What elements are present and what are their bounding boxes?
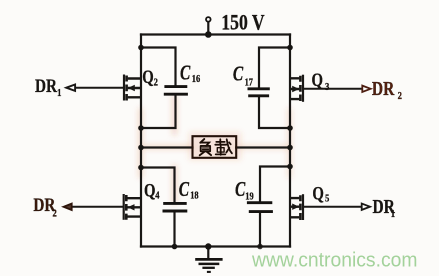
svg-text:1: 1: [57, 87, 61, 99]
svg-text:C: C: [180, 61, 191, 84]
svg-text:2: 2: [398, 90, 402, 102]
svg-text:Q: Q: [312, 183, 323, 204]
svg-text:C: C: [235, 178, 246, 201]
svg-text:C: C: [179, 178, 190, 201]
svg-text:Q: Q: [312, 69, 323, 90]
svg-text:3: 3: [325, 81, 329, 93]
svg-text:19: 19: [245, 190, 254, 202]
svg-text:DR: DR: [372, 77, 395, 99]
svg-text:www.cntronics.com: www.cntronics.com: [251, 249, 417, 272]
svg-text:5: 5: [325, 193, 329, 205]
svg-text:18: 18: [190, 189, 199, 201]
svg-text:2: 2: [154, 77, 158, 89]
svg-text:Q: Q: [142, 66, 153, 87]
svg-text:Q: Q: [144, 180, 155, 201]
svg-text:150 V: 150 V: [221, 11, 265, 35]
svg-text:17: 17: [245, 77, 254, 89]
svg-text:C: C: [233, 62, 244, 85]
svg-text:DR: DR: [35, 75, 57, 96]
svg-text:16: 16: [192, 73, 201, 85]
svg-text:1: 1: [391, 208, 395, 220]
svg-text:4: 4: [155, 190, 159, 202]
svg-text:2: 2: [53, 207, 57, 219]
